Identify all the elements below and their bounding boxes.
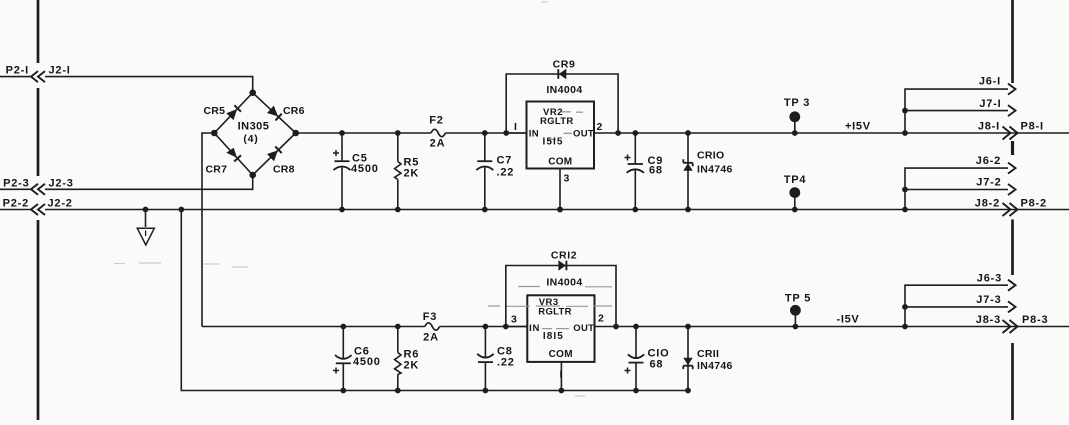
diode CR9 — [558, 69, 566, 79]
label CR12 value 1N4004 — [546, 277, 582, 289]
zener diode CR11 — [683, 324, 692, 394]
svg-text:TP4: TP4 — [784, 174, 807, 186]
label VR3 OUT — [573, 323, 594, 334]
label VR2 1515 — [543, 136, 564, 147]
VR3 internal dashed link — [488, 287, 612, 329]
label R5 — [404, 157, 420, 169]
label VR3 1815 — [543, 331, 564, 342]
fuse F2 — [431, 129, 445, 136]
label CR11 value IN4746 — [697, 360, 733, 372]
pin 2 of VR2 — [594, 121, 618, 133]
label VR3 — [539, 297, 559, 308]
svg-text:J8-I: J8-I — [978, 121, 1000, 133]
label CR9 value 1N4004 — [546, 84, 582, 96]
capacitor C6 — [335, 324, 352, 394]
label P2-3 — [3, 177, 29, 189]
svg-text:.22: .22 — [497, 357, 515, 369]
label C8 value .22 — [497, 357, 515, 369]
label VR3 COM — [549, 349, 573, 360]
connector P2-1 / J2-1 arrow — [0, 71, 45, 82]
label C6 value 4500 — [353, 356, 381, 368]
connector J8-2 / P8-2 arrow — [1003, 203, 1018, 216]
label C8 — [497, 346, 513, 358]
label R6 value 2K — [404, 360, 420, 372]
ground — [137, 207, 154, 245]
label CR10 — [697, 150, 724, 162]
label J8-1 — [978, 121, 1000, 133]
capacitor C8 — [477, 324, 494, 394]
connector P2-2 / J2-2 arrow — [0, 204, 45, 215]
wire F3 to VR3 IN — [440, 326, 528, 328]
svg-text:J2-3: J2-3 — [49, 177, 74, 189]
label J8-2 — [975, 198, 1000, 210]
connector J6-2 arrow — [1008, 163, 1016, 174]
wire ground rail (J2-2 to P8-2) — [45, 209, 1069, 211]
svg-text:IN: IN — [529, 128, 539, 139]
svg-text:J6-I: J6-I — [979, 76, 1001, 88]
diode CR5 — [226, 105, 241, 120]
svg-text:TP 3: TP 3 — [784, 97, 810, 109]
diode CR7 — [226, 148, 241, 162]
wire +15V regulated rail — [618, 132, 1069, 134]
label J8-3 — [976, 314, 1001, 326]
svg-text:J7-3: J7-3 — [976, 294, 1001, 306]
label CR8 — [273, 164, 295, 176]
pin 2 of VR3 — [595, 313, 616, 327]
label CR11 — [697, 348, 719, 360]
polarity + of C10 — [625, 368, 631, 374]
svg-text:J6-2: J6-2 — [976, 155, 1001, 167]
net -15V — [837, 314, 860, 326]
svg-text:IN: IN — [529, 323, 540, 334]
polarity + of C6 — [333, 368, 339, 374]
label VR2 OUT — [573, 128, 594, 139]
label J7-3 — [976, 294, 1001, 306]
svg-text:3: 3 — [511, 314, 518, 326]
svg-text:-I5V: -I5V — [837, 314, 860, 326]
net +15V — [845, 121, 871, 133]
wire branch to J6-3/J7-3 — [902, 285, 1008, 329]
svg-text:IN4004: IN4004 — [546, 277, 582, 289]
label P2-1 — [6, 65, 29, 77]
svg-text:COM: COM — [549, 349, 573, 360]
label CR12 — [551, 250, 577, 262]
label C7 — [497, 155, 513, 167]
svg-text:IN4746: IN4746 — [697, 163, 733, 175]
label C7 value .22 — [497, 167, 515, 179]
label J7-1 — [979, 98, 1001, 110]
label CR10 value IN4746 — [697, 163, 733, 175]
svg-text:4500: 4500 — [351, 163, 379, 175]
svg-text:2A: 2A — [430, 138, 446, 150]
sheet boundary line (left) — [37, 0, 40, 420]
label F3 — [423, 311, 437, 323]
label C9 value 68 — [649, 165, 663, 177]
svg-text:CR6: CR6 — [283, 105, 305, 117]
label C5 value 4500 — [351, 163, 379, 175]
node bridge right — [292, 130, 299, 137]
test point TP3 — [789, 111, 800, 136]
label J7-2 — [976, 177, 1001, 189]
scan artifact marks — [114, 2, 585, 396]
label F3 value 2A — [423, 332, 439, 344]
svg-text:RGLTR: RGLTR — [540, 116, 574, 127]
svg-text:F3: F3 — [423, 311, 437, 323]
polarity + of C9 — [625, 155, 631, 161]
diode CR6 — [267, 106, 282, 121]
svg-text:I: I — [514, 121, 518, 133]
svg-text:F2: F2 — [429, 115, 443, 127]
label TP4 — [784, 174, 807, 186]
node bridge left — [211, 130, 218, 137]
svg-text:IN4004: IN4004 — [546, 84, 582, 96]
svg-text:COM: COM — [548, 157, 572, 168]
capacitor C7 — [476, 130, 493, 212]
wire -15V regulated rail — [616, 326, 1069, 328]
connector J8-3 / P8-3 arrow — [1003, 320, 1018, 333]
label C10 — [648, 348, 670, 360]
svg-text:P8-3: P8-3 — [1022, 314, 1048, 326]
svg-text:J7-2: J7-2 — [976, 177, 1001, 189]
label R5 value 2K — [404, 168, 420, 180]
label VR2 RGLTR — [540, 116, 574, 127]
svg-text:C7: C7 — [497, 155, 513, 167]
wire J2-1 to bridge top — [45, 77, 253, 93]
wire +15V unregulated rail — [296, 132, 431, 134]
label IN305 (4) — [238, 120, 270, 145]
wire branch to J6-2/J7-2 — [902, 168, 1008, 212]
label P2-2 — [3, 198, 29, 210]
pin 3 of VR2 — [557, 169, 570, 213]
svg-text:.22: .22 — [497, 167, 515, 179]
resistor R6 — [395, 324, 401, 394]
label VR2 IN — [529, 128, 539, 139]
svg-text:CRII: CRII — [697, 348, 719, 360]
svg-text:68: 68 — [649, 165, 663, 177]
op-amp U regulator VR3 box — [527, 295, 594, 362]
svg-text:68: 68 — [650, 359, 664, 371]
svg-text:2K: 2K — [404, 168, 420, 180]
svg-text:J2-2: J2-2 — [48, 198, 73, 210]
bridge rectifier CR5-CR8 diamond — [214, 93, 295, 175]
pin 3 of VR3 — [506, 314, 528, 327]
label TP3 — [784, 97, 810, 109]
pin 1 of VR3 — [559, 362, 565, 394]
label CR6 — [283, 105, 305, 117]
svg-text:I5I5: I5I5 — [543, 136, 564, 147]
svg-text:I8I5: I8I5 — [543, 331, 564, 342]
svg-text:J8-2: J8-2 — [975, 198, 1000, 210]
label P8-2 — [1021, 198, 1047, 210]
label TP5 — [785, 293, 811, 305]
connector J7-3 arrow — [1008, 301, 1016, 312]
svg-text:P2-2: P2-2 — [3, 198, 29, 210]
svg-text:P8-I: P8-I — [1021, 121, 1044, 133]
VR2 internal dashed link — [548, 112, 583, 140]
svg-text:P2-I: P2-I — [6, 65, 29, 77]
label J2-2 — [48, 198, 73, 210]
svg-text:P8-2: P8-2 — [1021, 198, 1047, 210]
node bridge bottom — [249, 172, 256, 179]
fuse F3 — [425, 323, 440, 330]
svg-text:CRIO: CRIO — [697, 150, 724, 162]
label F2 value 2A — [430, 138, 446, 150]
test point TP5 — [790, 305, 801, 330]
pin COM junction C9/CR10 side dots — [557, 207, 563, 213]
label J6-1 — [979, 76, 1001, 88]
svg-text:3: 3 — [564, 173, 571, 185]
svg-text:IN4746: IN4746 — [697, 360, 733, 372]
connector J8-1 / P8-1 arrow — [1003, 127, 1018, 140]
pin 1 of VR2 — [506, 121, 526, 133]
zener diode CR10 — [683, 130, 692, 212]
label CR9 — [553, 59, 576, 71]
svg-text:I: I — [560, 369, 564, 381]
connector J6-3 arrow — [1008, 280, 1016, 291]
label VR2 — [543, 107, 563, 118]
polarity + of C5 — [333, 150, 339, 156]
svg-text:OUT: OUT — [573, 128, 594, 139]
svg-text:2A: 2A — [423, 332, 439, 344]
label C9 — [648, 155, 664, 167]
svg-text:(4): (4) — [243, 133, 258, 145]
resistor R5 — [395, 130, 401, 212]
svg-text:2: 2 — [597, 121, 604, 133]
label F2 — [429, 115, 443, 127]
test point TP4 — [789, 187, 800, 212]
label VR3 RGLTR — [538, 307, 572, 318]
label J6-3 — [977, 273, 1002, 285]
capacitor C10 — [628, 324, 644, 394]
svg-text:J7-I: J7-I — [979, 98, 1001, 110]
diode CR12 — [558, 260, 566, 270]
svg-text:4500: 4500 — [353, 356, 381, 368]
svg-text:+I5V: +I5V — [845, 121, 871, 133]
svg-text:2: 2 — [598, 313, 605, 325]
op-amp U regulator VR2 box — [527, 102, 595, 169]
label J6-2 — [976, 155, 1001, 167]
connector J7-2 arrow — [1008, 184, 1016, 195]
label VR3 IN — [529, 323, 540, 334]
label C6 — [354, 346, 370, 358]
svg-text:OUT: OUT — [573, 323, 594, 334]
svg-text:CR9: CR9 — [553, 59, 576, 71]
wire F2 to VR2 IN — [445, 132, 526, 134]
svg-text:RGLTR: RGLTR — [538, 307, 572, 318]
svg-text:CR7: CR7 — [206, 164, 228, 176]
label VR2 COM — [548, 157, 572, 168]
wire CR12 bypass loop — [503, 266, 619, 330]
wire branch to J6-1/J7-1 — [902, 89, 1008, 136]
svg-text:J6-3: J6-3 — [977, 273, 1002, 285]
svg-text:CRI2: CRI2 — [551, 250, 577, 262]
label C10 value 68 — [650, 359, 664, 371]
connector J7-1 arrow — [1008, 105, 1016, 116]
wire -15V unregulated rail — [202, 326, 425, 328]
connector J6-1 arrow — [1008, 84, 1016, 95]
svg-text:TP 5: TP 5 — [785, 293, 811, 305]
connector P2-3 / J2-3 arrow — [0, 184, 45, 195]
label J2-1 — [49, 65, 71, 77]
wire J2-3 to bridge bottom — [45, 176, 253, 189]
label P8-1 — [1021, 121, 1044, 133]
label R6 — [404, 349, 420, 361]
svg-text:CR5: CR5 — [204, 105, 226, 117]
svg-text:CR8: CR8 — [273, 164, 295, 176]
svg-text:J8-3: J8-3 — [976, 314, 1001, 326]
sheet boundary line (right) — [1011, 0, 1014, 420]
wire bridge left vertex to lower rail — [202, 133, 214, 327]
svg-text:J2-I: J2-I — [49, 65, 71, 77]
capacitor C5 — [334, 130, 351, 212]
capacitor C9 — [627, 130, 644, 212]
svg-text:IN305: IN305 — [238, 120, 270, 132]
diode CR8 — [267, 147, 282, 162]
svg-text:2K: 2K — [404, 360, 420, 372]
svg-text:P2-3: P2-3 — [3, 177, 29, 189]
node bridge top — [249, 89, 256, 96]
wire ground rail to bottom return rail — [178, 207, 688, 391]
label CR7 — [206, 164, 228, 176]
label J2-3 — [49, 177, 74, 189]
label C5 — [352, 153, 368, 165]
wire CR9 bypass loop — [503, 74, 621, 136]
label CR5 — [204, 105, 226, 117]
label P8-3 — [1022, 314, 1048, 326]
